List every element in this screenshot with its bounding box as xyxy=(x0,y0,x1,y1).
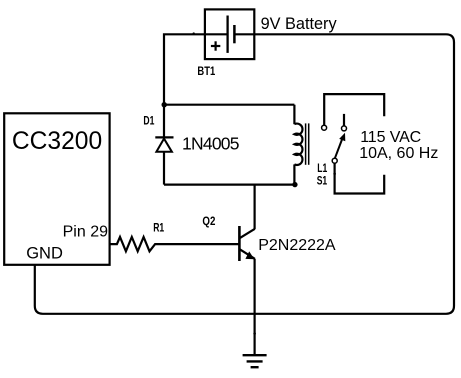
wire emitter to ground xyxy=(254,259,256,355)
wire switch fixed contact stub xyxy=(343,114,345,126)
node junction dot (coil bottom) xyxy=(292,182,297,187)
wire battery plus loop (top-right-bottom outer wire) xyxy=(35,34,454,314)
ground xyxy=(243,355,267,367)
wire joint nib (battery left wire) xyxy=(193,32,195,34)
svg-text:115 VAC: 115 VAC xyxy=(360,129,421,146)
svg-text:S1: S1 xyxy=(317,174,328,188)
svg-text:R1: R1 xyxy=(153,221,164,235)
svg-text:P2N2222A: P2N2222A xyxy=(258,237,336,254)
wire relay loop top xyxy=(164,104,294,106)
switch S1 arm with arrow xyxy=(335,133,345,159)
svg-text:D1: D1 xyxy=(143,114,154,128)
svg-text:9V Battery: 9V Battery xyxy=(261,15,338,33)
resistor R1 xyxy=(110,237,239,251)
battery BT1 xyxy=(205,9,254,59)
wire relay loop bottom xyxy=(164,184,295,186)
transistor Q2 xyxy=(239,226,255,261)
svg-text:1N4005: 1N4005 xyxy=(182,134,240,154)
svg-text:GND: GND xyxy=(26,245,63,263)
wire switch top bracket (to 115VAC terminal) xyxy=(324,94,384,125)
wire collector to coil bottom xyxy=(254,185,256,229)
svg-text:BT1: BT1 xyxy=(197,64,215,78)
relay coil L1 xyxy=(294,105,308,185)
svg-text:10A, 60 Hz: 10A, 60 Hz xyxy=(359,145,438,162)
wire battery left to diode top xyxy=(164,34,205,104)
wire switch bottom bracket (to 115VAC terminal) xyxy=(335,163,385,193)
wire joint nib (emitter wire) xyxy=(253,332,256,335)
svg-text:CC3200: CC3200 xyxy=(12,128,102,155)
CC3200 block xyxy=(4,113,109,264)
diode D1 xyxy=(155,105,173,185)
svg-text:Pin 29: Pin 29 xyxy=(63,223,108,240)
switch S1 contacts xyxy=(322,125,347,163)
svg-text:Q2: Q2 xyxy=(202,214,215,228)
wire joint nib (switch lower wire) xyxy=(333,173,336,176)
node junction dot (battery/diode/relay top) xyxy=(162,102,167,107)
